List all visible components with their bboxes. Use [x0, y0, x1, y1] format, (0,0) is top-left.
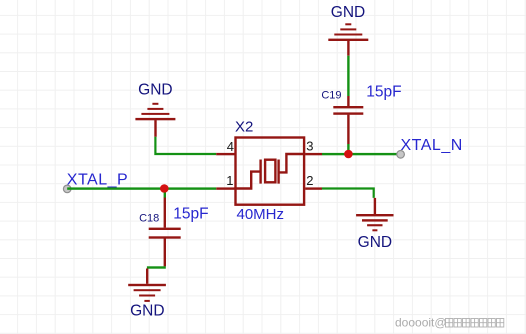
svg-text:XTAL_P: XTAL_P	[67, 172, 128, 189]
crystal X2	[216, 138, 322, 205]
wire XTAL_N net	[322, 153, 399, 155]
wire C18 to bottom GND	[147, 266, 166, 268]
svg-text:dooooit@: dooooit@	[395, 316, 447, 330]
capacitor C18	[149, 198, 181, 267]
junction (C19 / XTAL_N)	[344, 150, 353, 159]
power port GND (right, below pin 2)	[356, 198, 393, 251]
junction (C18 / XTAL_P)	[160, 184, 169, 193]
wire XTAL_P net	[67, 187, 216, 189]
wire pin 2 to right GND	[322, 187, 375, 198]
svg-text:GND: GND	[138, 82, 172, 99]
svg-text:3: 3	[306, 138, 313, 153]
svg-text:C19: C19	[321, 89, 341, 101]
svg-text:X2: X2	[235, 119, 253, 136]
svg-text:GND: GND	[130, 303, 164, 320]
svg-text:GND: GND	[331, 4, 365, 21]
svg-text:GND: GND	[358, 234, 392, 251]
svg-text:4: 4	[227, 139, 234, 154]
svg-text:15pF: 15pF	[366, 84, 401, 101]
power port GND (top, above C19)	[328, 4, 368, 56]
svg-text:C18: C18	[139, 213, 159, 225]
svg-text:1: 1	[226, 173, 233, 188]
svg-text:15pF: 15pF	[173, 206, 208, 223]
power port GND (bottom left)	[128, 269, 166, 320]
svg-text:XTAL_N: XTAL_N	[401, 137, 463, 154]
wire left GND to pin 4	[154, 137, 216, 155]
svg-text:2: 2	[306, 173, 313, 188]
wire C19 to junction	[347, 144, 349, 152]
capacitor C19	[333, 96, 363, 144]
wire junction to C18	[164, 193, 166, 198]
power port GND (left, above X2 pin 4)	[135, 82, 175, 137]
node XTAL_P endpoint	[63, 185, 71, 193]
watermark	[395, 316, 504, 330]
wire GND to C19	[347, 56, 349, 96]
svg-text:40MHz: 40MHz	[237, 206, 285, 223]
node XTAL_N endpoint	[397, 151, 405, 159]
